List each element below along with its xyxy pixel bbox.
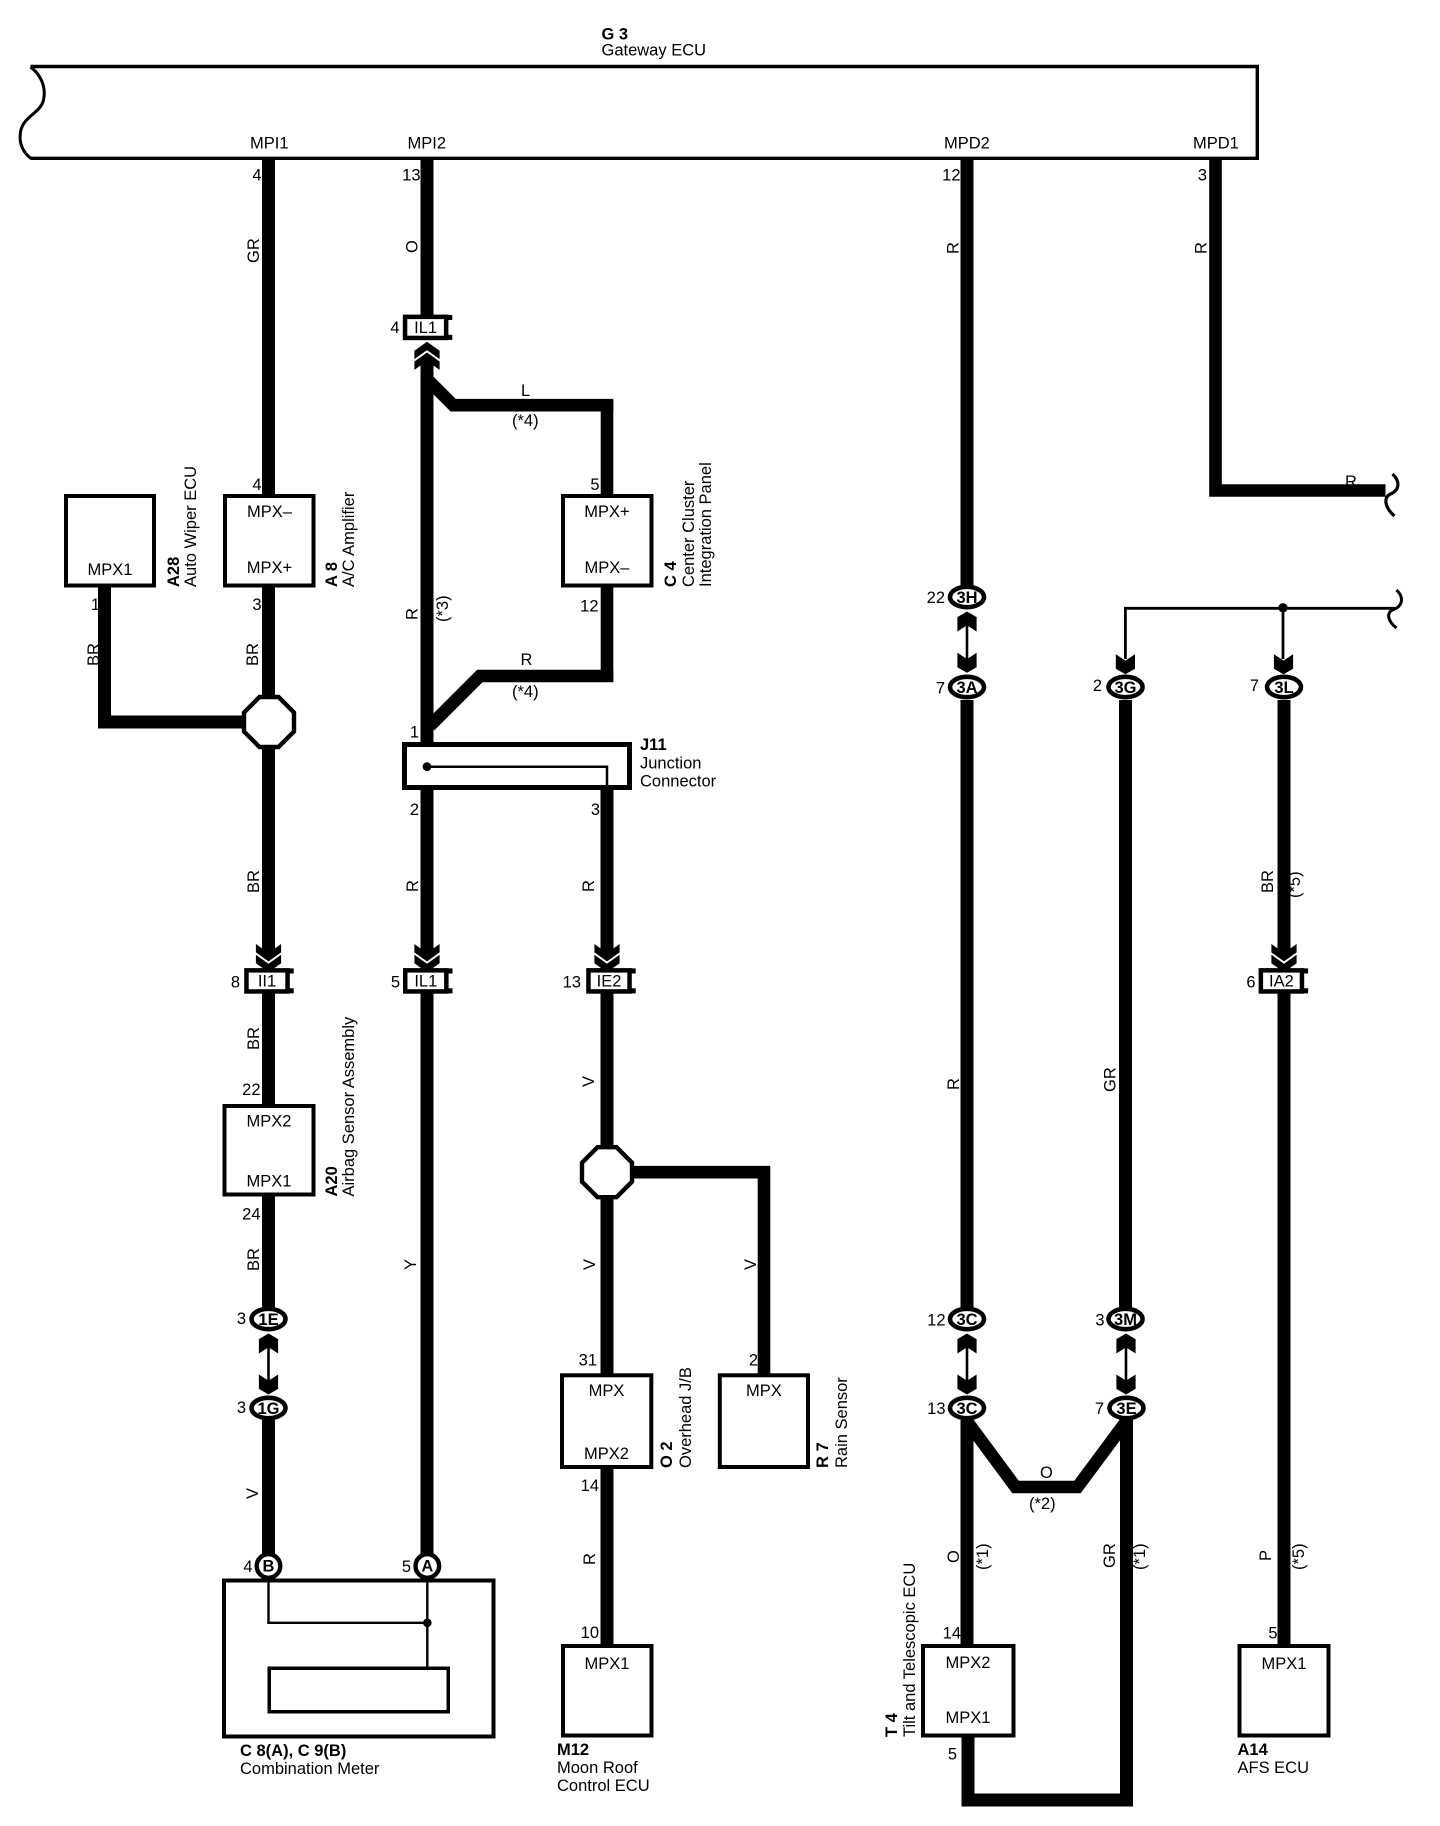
svg-text:R: R <box>404 608 422 620</box>
svg-text:GR: GR <box>1102 1067 1120 1092</box>
svg-text:MPX2: MPX2 <box>247 1113 292 1131</box>
svg-text:C 8(A), C 9(B): C 8(A), C 9(B) <box>240 1742 346 1760</box>
svg-text:4: 4 <box>243 1558 252 1576</box>
svg-text:12: 12 <box>942 167 960 185</box>
svg-text:4: 4 <box>390 319 399 337</box>
svg-text:3: 3 <box>1095 1312 1104 1330</box>
svg-text:6: 6 <box>1246 974 1255 992</box>
svg-text:MPX1: MPX1 <box>88 561 133 579</box>
svg-text:2: 2 <box>1093 677 1102 695</box>
svg-text:V: V <box>581 1259 599 1270</box>
svg-text:R: R <box>945 242 963 254</box>
svg-text:(*2): (*2) <box>1029 1495 1056 1513</box>
svg-text:Moon Roof: Moon Roof <box>557 1759 638 1777</box>
svg-text:(*1): (*1) <box>1131 1543 1149 1570</box>
svg-text:(*3): (*3) <box>434 595 452 622</box>
svg-text:(*5): (*5) <box>1286 871 1304 898</box>
svg-text:4: 4 <box>252 476 261 494</box>
svg-text:(*5): (*5) <box>1290 1543 1308 1570</box>
svg-text:31: 31 <box>579 1352 597 1370</box>
svg-text:MPI2: MPI2 <box>408 135 447 153</box>
svg-text:14: 14 <box>943 1625 961 1643</box>
svg-text:R: R <box>404 880 422 892</box>
svg-text:7: 7 <box>1095 1400 1104 1418</box>
svg-text:3: 3 <box>1198 167 1207 185</box>
svg-text:A28: A28 <box>165 557 183 587</box>
svg-text:II1: II1 <box>258 973 276 991</box>
svg-text:MPX1: MPX1 <box>1262 1655 1307 1673</box>
svg-text:2: 2 <box>410 801 419 819</box>
svg-text:3E: 3E <box>1116 1400 1136 1418</box>
svg-text:Junction: Junction <box>640 755 701 773</box>
svg-text:3C: 3C <box>956 1400 977 1418</box>
svg-text:(*4): (*4) <box>512 412 539 430</box>
svg-text:Overhead J/B: Overhead J/B <box>677 1367 695 1468</box>
svg-text:7: 7 <box>936 680 945 698</box>
svg-text:V: V <box>580 1076 598 1087</box>
svg-text:5: 5 <box>391 974 400 992</box>
svg-text:IA2: IA2 <box>1269 973 1294 991</box>
svg-text:MPX: MPX <box>746 1382 782 1400</box>
svg-text:GR: GR <box>1101 1543 1119 1568</box>
svg-text:A 8: A 8 <box>323 562 341 587</box>
svg-text:3A: 3A <box>956 679 977 697</box>
svg-text:Integration Panel: Integration Panel <box>697 462 715 587</box>
svg-text:3H: 3H <box>956 589 977 607</box>
svg-text:3: 3 <box>591 801 600 819</box>
svg-text:R: R <box>1193 242 1211 254</box>
svg-text:MPX: MPX <box>589 1382 625 1400</box>
svg-text:12: 12 <box>580 598 598 616</box>
svg-text:2: 2 <box>749 1352 758 1370</box>
svg-text:1E: 1E <box>258 1311 278 1329</box>
svg-text:M12: M12 <box>557 1741 589 1759</box>
svg-text:A20: A20 <box>323 1166 341 1196</box>
svg-text:5: 5 <box>948 1746 957 1764</box>
svg-text:(*4): (*4) <box>512 683 539 701</box>
svg-text:A/C Amplifier: A/C Amplifier <box>340 491 358 587</box>
svg-text:IL1: IL1 <box>414 973 437 991</box>
svg-text:4: 4 <box>252 167 261 185</box>
svg-text:V: V <box>742 1259 760 1270</box>
svg-text:A: A <box>421 1558 433 1576</box>
svg-text:8: 8 <box>231 974 240 992</box>
svg-text:7: 7 <box>1250 677 1259 695</box>
svg-text:GR: GR <box>245 238 263 263</box>
svg-text:10: 10 <box>581 1624 599 1642</box>
svg-text:MPX1: MPX1 <box>585 1655 630 1673</box>
svg-text:R: R <box>1345 473 1357 491</box>
svg-text:R: R <box>580 880 598 892</box>
svg-text:BR: BR <box>1259 870 1277 893</box>
svg-text:MPI1: MPI1 <box>250 135 289 153</box>
svg-text:3: 3 <box>237 1310 246 1328</box>
svg-text:O: O <box>1040 1464 1053 1482</box>
svg-text:AFS ECU: AFS ECU <box>1238 1759 1310 1777</box>
svg-text:MPX2: MPX2 <box>584 1445 629 1463</box>
svg-text:Auto Wiper ECU: Auto Wiper ECU <box>182 466 200 587</box>
svg-text:3L: 3L <box>1274 679 1293 697</box>
svg-text:R: R <box>945 1078 963 1090</box>
svg-text:O 2: O 2 <box>658 1441 676 1468</box>
svg-text:Airbag Sensor Assembly: Airbag Sensor Assembly <box>340 1016 358 1197</box>
svg-text:MPD2: MPD2 <box>944 135 990 153</box>
svg-text:MPD1: MPD1 <box>1193 135 1239 153</box>
svg-text:Gateway ECU: Gateway ECU <box>602 42 707 60</box>
svg-text:MPX2: MPX2 <box>946 1654 991 1672</box>
svg-text:B: B <box>263 1558 275 1576</box>
svg-text:3M: 3M <box>1114 1311 1137 1329</box>
svg-text:Combination Meter: Combination Meter <box>240 1760 380 1778</box>
svg-text:24: 24 <box>242 1206 260 1224</box>
svg-text:5: 5 <box>590 476 599 494</box>
svg-text:Tilt and Telescopic ECU: Tilt and Telescopic ECU <box>901 1563 919 1737</box>
svg-text:R: R <box>521 651 533 669</box>
svg-text:22: 22 <box>927 589 945 607</box>
svg-text:R: R <box>581 1553 599 1565</box>
svg-text:MPX1: MPX1 <box>247 1173 292 1191</box>
svg-text:13: 13 <box>402 167 420 185</box>
svg-text:MPX–: MPX– <box>585 559 631 577</box>
svg-text:MPX+: MPX+ <box>247 559 292 577</box>
svg-text:MPX–: MPX– <box>247 503 293 521</box>
svg-text:Control ECU: Control ECU <box>557 1777 650 1795</box>
svg-text:V: V <box>244 1488 262 1499</box>
svg-text:1: 1 <box>91 596 100 614</box>
svg-text:IL1: IL1 <box>414 319 437 337</box>
svg-text:A14: A14 <box>1238 1741 1269 1759</box>
svg-text:3G: 3G <box>1114 679 1136 697</box>
svg-text:22: 22 <box>242 1081 260 1099</box>
svg-text:3: 3 <box>237 1399 246 1417</box>
svg-text:Center Cluster: Center Cluster <box>680 480 698 587</box>
svg-text:Y: Y <box>402 1259 420 1270</box>
svg-text:1G: 1G <box>257 1400 279 1418</box>
svg-text:L: L <box>521 382 530 400</box>
svg-text:R 7: R 7 <box>814 1442 832 1468</box>
svg-text:14: 14 <box>581 1477 599 1495</box>
svg-text:BR: BR <box>85 643 103 666</box>
svg-text:(*1): (*1) <box>974 1543 992 1570</box>
svg-text:O: O <box>945 1550 963 1563</box>
svg-text:12: 12 <box>927 1312 945 1330</box>
svg-text:3: 3 <box>252 596 261 614</box>
svg-text:MPX1: MPX1 <box>946 1709 991 1727</box>
svg-text:IE2: IE2 <box>597 973 622 991</box>
svg-text:MPX+: MPX+ <box>584 503 629 521</box>
svg-text:P: P <box>1257 1550 1275 1561</box>
svg-text:BR: BR <box>245 1027 263 1050</box>
svg-text:T 4: T 4 <box>883 1712 901 1737</box>
svg-text:BR: BR <box>245 870 263 893</box>
svg-text:13: 13 <box>927 1400 945 1418</box>
svg-text:13: 13 <box>563 974 581 992</box>
svg-text:Connector: Connector <box>640 773 717 791</box>
svg-text:5: 5 <box>1268 1625 1277 1643</box>
svg-text:5: 5 <box>402 1558 411 1576</box>
svg-text:3C: 3C <box>956 1311 977 1329</box>
svg-text:BR: BR <box>245 1248 263 1271</box>
svg-text:O: O <box>404 240 422 253</box>
svg-text:1: 1 <box>410 724 419 742</box>
svg-text:BR: BR <box>244 643 262 666</box>
svg-text:C 4: C 4 <box>662 561 680 588</box>
svg-text:J11: J11 <box>640 736 667 754</box>
svg-text:Rain Sensor: Rain Sensor <box>833 1377 851 1468</box>
